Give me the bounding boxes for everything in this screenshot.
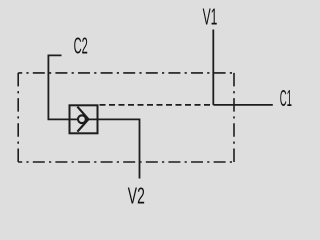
svg-text:C1: C1 [280,85,292,111]
check valve seat [77,107,88,132]
valve enclosure dash-dot border left [17,73,19,162]
valve enclosure dash-dot border right [233,73,235,162]
valve enclosure dash-dot border bottom [18,161,234,163]
check valve ball [78,115,86,123]
flow line through valve [70,118,98,120]
check valve body box [70,105,98,133]
pilot line (dashed) from valve to V1/C1 node [98,104,214,106]
valve enclosure dash-dot border top [18,72,234,74]
svg-text:V2: V2 [128,183,145,209]
wire C1 horizontal line [213,104,272,106]
wire C2 line (tick, down, into valve) [48,55,69,119]
wire V1 vertical line [212,30,214,105]
svg-text:V1: V1 [203,3,218,29]
svg-text:C2: C2 [74,33,88,59]
wire valve outlet to V2 [98,119,140,178]
